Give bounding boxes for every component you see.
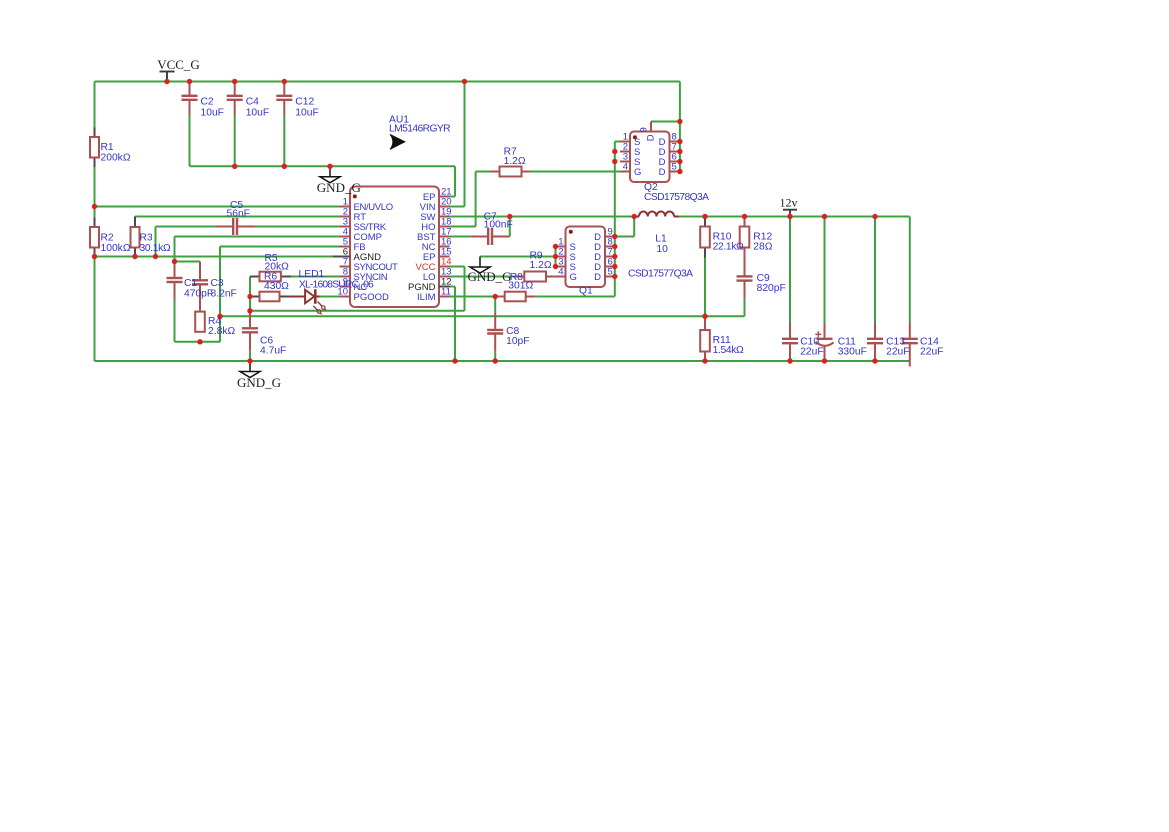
- wire Q1 source pins tie: [555, 247, 557, 267]
- junction C5 leg: [153, 254, 158, 259]
- junction C6 bottom: [247, 358, 252, 363]
- ground symbol GND_G (input caps): [329, 166, 331, 177]
- wire R7 to Q2 gate: [531, 171, 621, 173]
- wire VCC top rail: [95, 81, 680, 83]
- power symbol 12v: [783, 209, 797, 211]
- resistor R9: [524, 272, 546, 282]
- junction PGND bottom: [452, 358, 457, 363]
- Q2 pin 5 stub: [670, 171, 680, 173]
- wire R5 R6 left leads: [250, 276, 260, 278]
- svg-text:1.2Ω: 1.2Ω: [504, 156, 526, 167]
- wire PGND pin 12 to ground: [449, 286, 455, 288]
- junction VCC line: [247, 308, 252, 313]
- pin 14 stub: [439, 266, 450, 268]
- svg-text:C2: C2: [201, 97, 214, 108]
- AU1 orientation arrow marker: [390, 134, 405, 149]
- transistor Q2 body CSD17578Q3A: [630, 132, 670, 183]
- wire R5 R6 right leads: [281, 276, 291, 278]
- wire Q2 pin 9 drain jog: [651, 121, 680, 123]
- wire bottom GND rail: [95, 360, 910, 362]
- wire VIN pin 20 riser: [449, 206, 465, 208]
- junction L1 SW tap: [632, 214, 637, 219]
- pin 3 stub: [340, 226, 351, 228]
- resistor R11: [700, 330, 710, 352]
- wire ILIM pin 11: [449, 296, 495, 298]
- wire EP pin 21 to ground rail: [449, 196, 455, 198]
- Q1 pin 9 stub: [605, 236, 615, 238]
- Q1 pin 8 stub: [605, 246, 615, 248]
- Q2 pin 1 stub: [620, 141, 630, 143]
- capacitor C10: [789, 323, 791, 339]
- capacitor C4: [234, 82, 236, 96]
- wire R2 leads: [94, 218, 96, 228]
- wire R3 leads: [134, 217, 136, 228]
- junction Q1 drain pin5: [612, 274, 617, 279]
- svg-text:430Ω: 430Ω: [264, 281, 289, 292]
- junction COMP network: [172, 259, 177, 264]
- wire Q2 drain riser to VCC rail: [679, 82, 681, 172]
- svg-text:301Ω: 301Ω: [508, 280, 533, 291]
- junction Q2 drain pin7: [677, 149, 682, 154]
- junction Q2 source pin3: [612, 159, 617, 164]
- svg-text:22uF: 22uF: [886, 346, 909, 357]
- pin 20 stub: [439, 206, 450, 208]
- wire C5 left leg to AGND rail: [155, 227, 157, 257]
- junction R12 top: [742, 214, 747, 219]
- wire right edge: [909, 217, 911, 323]
- svg-text:56nF: 56nF: [227, 208, 250, 219]
- pin 1 stub: [340, 206, 351, 208]
- junction C12 bottom: [282, 164, 287, 169]
- Q1 pin 7 stub: [605, 256, 615, 258]
- pin 6 stub: [340, 256, 351, 258]
- junction Q1 drain pin7: [612, 254, 617, 259]
- svg-text:4: 4: [623, 162, 628, 173]
- capacitor C9: [744, 248, 746, 277]
- wire switch node vertical Q2 sources to Q1 drains: [614, 142, 616, 297]
- Q1 pin 5 stub: [605, 276, 615, 278]
- svg-text:D: D: [594, 272, 601, 283]
- Q2 pin 3 stub: [620, 161, 630, 163]
- wire R10 bottom leg: [704, 258, 706, 317]
- capacitor C5: [215, 226, 232, 228]
- resistor R5 body (lower horizontal): [260, 292, 280, 302]
- power symbol VCC_G: [160, 71, 175, 73]
- svg-text:330uF: 330uF: [838, 346, 867, 357]
- junction R10 top: [702, 214, 707, 219]
- wire C10 column: [789, 217, 791, 323]
- junction C2 top: [187, 79, 192, 84]
- wire COMP pin 4: [175, 236, 340, 238]
- svg-text:CSD17578Q3A: CSD17578Q3A: [644, 192, 709, 203]
- resistor R10: [700, 227, 710, 248]
- junction Q1 source pin2: [553, 254, 558, 259]
- wire input cap ground rail: [190, 165, 456, 167]
- wire COMP down to compensation network: [174, 237, 176, 262]
- Q1 pin-1 marker: [569, 230, 573, 234]
- junction 12v C10 top: [787, 214, 792, 219]
- pin 8 stub: [340, 276, 351, 278]
- wire VCC pin 14 to C6: [449, 266, 465, 268]
- junction R2 bottom: [92, 254, 97, 259]
- junction R4 bottom: [197, 339, 202, 344]
- junction C13 bottom: [872, 358, 877, 363]
- svg-text:10uF: 10uF: [246, 107, 269, 118]
- junction C8 bottom: [493, 358, 498, 363]
- Q1 pin 3 stub: [556, 266, 566, 268]
- junction FB tap: [217, 314, 222, 319]
- svg-text:28Ω: 28Ω: [753, 241, 772, 252]
- junction C11 top: [822, 214, 827, 219]
- wire C9 bottom leg: [744, 298, 746, 316]
- LED1 emission arrows: [318, 302, 322, 307]
- pin 21 stub: [439, 196, 450, 198]
- svg-text:5: 5: [672, 162, 677, 173]
- junction VCC_G tap: [164, 79, 169, 84]
- svg-text:C4: C4: [246, 97, 259, 108]
- wire R8 to Q1 drain: [535, 296, 615, 298]
- wire AGND rail: [95, 256, 334, 258]
- pin 11 stub: [439, 296, 450, 298]
- pin 2 stub: [340, 216, 351, 218]
- pin 7 stub: [340, 266, 351, 268]
- pin 16 stub: [439, 246, 450, 248]
- wire FB vertical: [219, 247, 221, 342]
- svg-text:GND_G: GND_G: [317, 180, 361, 195]
- wire PGOOD pin 10 after LED: [320, 296, 340, 298]
- junction Q1 drain pin6: [612, 264, 617, 269]
- resistor R2: [90, 227, 99, 248]
- wire FB pin 5: [220, 246, 340, 248]
- LED LED1: [290, 296, 305, 298]
- svg-text:200kΩ: 200kΩ: [101, 152, 131, 163]
- junction C4 bottom: [232, 164, 237, 169]
- svg-text:C3: C3: [211, 278, 224, 289]
- junction EN divider: [92, 204, 97, 209]
- junction Q1 drain pin9: [612, 234, 617, 239]
- svg-text:GND_G: GND_G: [468, 269, 512, 284]
- Q1 pin 6 stub: [605, 266, 615, 268]
- svg-text:VCC_G: VCC_G: [157, 57, 200, 72]
- junction C12 top: [282, 79, 287, 84]
- svg-text:820pF: 820pF: [757, 283, 786, 294]
- wire C2 bottom leg: [189, 115, 191, 166]
- Q2 pin 6 stub: [670, 161, 680, 163]
- svg-text:R1: R1: [101, 142, 114, 153]
- wire C6 bottom leg: [249, 350, 251, 361]
- svg-text:G: G: [570, 272, 577, 283]
- junction Q2 drain pin8: [677, 139, 682, 144]
- wire SS/TRK pin 3 segments around C5: [156, 226, 216, 228]
- pin 5 stub: [340, 246, 351, 248]
- pin 9 stub: [340, 286, 351, 288]
- capacitor C2: [189, 82, 191, 96]
- svg-text:22uF: 22uF: [920, 346, 943, 357]
- Q2 pin 4 stub: [620, 171, 630, 173]
- junction Q2 drain pin9: [677, 119, 682, 124]
- ground symbol GND_G (bottom): [249, 361, 251, 372]
- svg-text:D: D: [659, 167, 666, 178]
- junction R3 bottom: [132, 254, 137, 259]
- svg-text:CSD17577Q3A: CSD17577Q3A: [628, 269, 693, 280]
- Q1 pin 4 stub: [556, 276, 566, 278]
- svg-text:XL-1608SURC_06: XL-1608SURC_06: [299, 279, 374, 290]
- pin 12 stub: [439, 286, 450, 288]
- wire R10 leads: [704, 217, 706, 227]
- svg-text:470pF: 470pF: [184, 289, 213, 300]
- svg-text:22.1kΩ: 22.1kΩ: [713, 241, 744, 252]
- wire VCC decoupling vertical: [249, 277, 251, 313]
- capacitor C6: [249, 312, 251, 328]
- svg-text:100nF: 100nF: [484, 219, 513, 230]
- resistor R4: [195, 312, 205, 332]
- junction VIN riser: [462, 79, 467, 84]
- svg-text:R3: R3: [140, 233, 153, 244]
- capacitor C11 (polarized): [824, 323, 826, 339]
- wire C4 bottom leg: [234, 115, 236, 166]
- wire LO pin 13 to R9: [449, 276, 516, 278]
- C11 plus sign: [815, 333, 821, 335]
- capacitor C7: [470, 236, 487, 238]
- svg-text:C12: C12: [295, 97, 314, 108]
- svg-text:L1: L1: [655, 234, 667, 245]
- wire C11 column: [824, 217, 826, 323]
- resistor R8: [505, 292, 526, 302]
- Q2 pin 8 stub: [670, 141, 680, 143]
- Q2 pin 9 stub (top): [650, 122, 652, 132]
- svg-text:C1: C1: [184, 278, 197, 289]
- AU1 pin-1 marker: [353, 194, 357, 198]
- wire FB sense line to output divider: [220, 315, 745, 317]
- wire C7 to SW: [509, 217, 511, 237]
- capacitor C3: [199, 262, 201, 281]
- svg-text:ILIM: ILIM: [417, 292, 436, 303]
- junction divider mid: [702, 314, 707, 319]
- junction Q2 drain pin6: [677, 159, 682, 164]
- svg-text:5: 5: [608, 267, 613, 278]
- junction C11 bottom: [822, 358, 827, 363]
- svg-text:4: 4: [558, 267, 563, 278]
- wire SYNCIN pin 8: [291, 276, 340, 278]
- wire 12V output rail: [679, 216, 910, 218]
- svg-text:10pF: 10pF: [506, 336, 529, 347]
- wire RT pin 2: [135, 216, 340, 218]
- capacitor C8: [494, 297, 496, 313]
- junction C13 top: [872, 214, 877, 219]
- junction C7 SW tap: [507, 214, 512, 219]
- Q1 pin 1 stub: [556, 246, 566, 248]
- wire C1 bottom leg: [174, 300, 176, 342]
- svg-text:10uF: 10uF: [295, 107, 318, 118]
- pin 15 stub: [439, 256, 450, 258]
- svg-text:10uF: 10uF: [201, 107, 224, 118]
- Q1 pin 2 stub: [556, 256, 566, 258]
- resistor R7: [500, 167, 522, 177]
- svg-text:22uF: 22uF: [800, 346, 823, 357]
- junction Q2 drain pin5: [677, 169, 682, 174]
- svg-text:PGOOD: PGOOD: [354, 292, 390, 303]
- Q2 pin 7 stub: [670, 151, 680, 153]
- svg-text:11: 11: [441, 287, 451, 298]
- pin 19 stub: [439, 216, 450, 218]
- wire BST pin 17 to C7: [449, 236, 470, 238]
- svg-text:12v: 12v: [780, 195, 798, 209]
- resistor R6 body (upper horizontal): [260, 272, 281, 282]
- svg-text:30.1kΩ: 30.1kΩ: [140, 243, 171, 254]
- ground symbol GND_G (near Q1): [479, 257, 481, 268]
- svg-text:8.2nF: 8.2nF: [211, 289, 237, 300]
- wire R1 leads: [94, 128, 96, 138]
- op-amp U1 body AU1 LM5146RGYR rectangle: [350, 187, 439, 308]
- junction ILIM R8 C8: [493, 294, 498, 299]
- junction R5 left: [247, 294, 252, 299]
- wire left edge (R1/R2 column): [94, 82, 96, 362]
- junction Q1 source pin3: [553, 264, 558, 269]
- junction Q2 source pin2: [612, 149, 617, 154]
- svg-text:D: D: [645, 134, 656, 141]
- svg-text:10: 10: [656, 244, 668, 255]
- Q2 pin 2 stub: [620, 151, 630, 153]
- capacitor C14: [909, 323, 911, 339]
- capacitor C12: [283, 82, 285, 96]
- svg-text:1.2Ω: 1.2Ω: [530, 260, 552, 271]
- wire C12 bottom leg: [283, 115, 285, 166]
- wire Q1 pin 9 branch to SW: [633, 217, 635, 237]
- wire EN/UVLO pin 1: [95, 206, 340, 208]
- transistor Q1 body CSD17577Q3A: [566, 227, 606, 288]
- svg-text:9: 9: [639, 127, 650, 132]
- junction Q1 drain pin8: [612, 244, 617, 249]
- inductor L1: [634, 216, 639, 218]
- svg-text:LM5146RGYR: LM5146RGYR: [389, 124, 450, 135]
- svg-text:100kΩ: 100kΩ: [101, 243, 131, 254]
- capacitor C13: [874, 323, 876, 339]
- wire C13 column: [874, 217, 876, 323]
- svg-text:2.8kΩ: 2.8kΩ: [208, 326, 235, 337]
- resistor R12: [740, 227, 750, 248]
- Q2 pin-1 marker: [633, 135, 637, 139]
- svg-text:G: G: [634, 167, 641, 178]
- svg-text:R2: R2: [101, 233, 114, 244]
- pin 4 stub: [340, 236, 351, 238]
- junction GND symbol tap: [327, 164, 332, 169]
- wire C1/C3 branch: [175, 261, 201, 263]
- wire Q1 source to ground symbol: [480, 256, 556, 258]
- junction C4 top: [232, 79, 237, 84]
- junction C10 bottom: [787, 358, 792, 363]
- capacitor C1: [174, 262, 176, 279]
- pin 17 stub: [439, 236, 450, 238]
- resistor R1: [90, 137, 99, 158]
- svg-text:Q1: Q1: [579, 286, 593, 297]
- junction Q1 source pin1: [553, 244, 558, 249]
- svg-text:4.7uF: 4.7uF: [260, 346, 286, 357]
- pin 18 stub: [439, 226, 450, 228]
- resistor R3: [131, 227, 140, 248]
- wire HO pin 18 riser to R7: [449, 226, 476, 228]
- pin 13 stub: [439, 276, 450, 278]
- pin 10 stub: [340, 296, 351, 298]
- wire SW node from pin 19: [449, 216, 634, 218]
- wire compensation bottom rail: [175, 341, 221, 343]
- svg-text:GND_G: GND_G: [237, 375, 281, 390]
- svg-text:1.54kΩ: 1.54kΩ: [713, 345, 744, 356]
- junction R11 bottom: [702, 358, 707, 363]
